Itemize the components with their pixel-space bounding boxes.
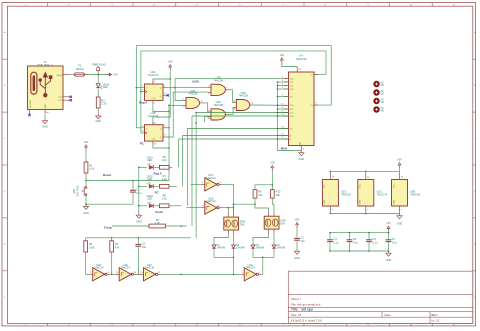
wire FF1 CLK tap xyxy=(141,91,145,93)
svg-text:USB_TWA_C: USB_TWA_C xyxy=(37,63,53,67)
wire D3 D4 join xyxy=(253,249,274,257)
wire U5A out to U5C in1 xyxy=(203,103,207,112)
svg-text:74HC153: 74HC153 xyxy=(296,57,308,61)
svg-text:LED: LED xyxy=(147,159,152,162)
inverter U1B xyxy=(205,201,217,214)
wire U2A CLR to reset net xyxy=(153,104,169,112)
svg-text:+5V: +5V xyxy=(84,140,89,144)
pin 2Y of U4 xyxy=(314,104,318,106)
svg-text:74HC14: 74HC14 xyxy=(245,266,255,270)
svg-text:GND: GND xyxy=(393,199,395,204)
wire R6 right xyxy=(169,166,172,168)
wire LED row xyxy=(139,205,147,207)
wire fuse to +5V xyxy=(85,74,112,76)
wire R7 right xyxy=(169,185,177,187)
resistor R1 xyxy=(84,162,88,173)
resistor R9 xyxy=(253,190,257,198)
pin Q of U2B xyxy=(163,127,167,129)
svg-text:VCC: VCC xyxy=(393,183,395,188)
svg-text:KiCad E.D.A. kicad 7.0.6: KiCad E.D.A. kicad 7.0.6 xyxy=(291,319,322,323)
wire bypass bottom rail xyxy=(330,250,389,252)
pin GND of U1G xyxy=(329,206,331,212)
wire U2B Qbar to U5B in2 xyxy=(167,92,207,137)
svg-text:100k: 100k xyxy=(89,246,95,250)
wire U2B CLR to reset net xyxy=(153,145,169,148)
wire R9 node to DW2 xyxy=(255,204,269,212)
svg-text:LED: LED xyxy=(147,197,152,200)
pin VCC of U2C xyxy=(365,173,367,180)
title block xyxy=(288,271,473,323)
svg-text:100mA: 100mA xyxy=(75,67,83,71)
capacitor C4 xyxy=(327,239,333,241)
wire stub to U4 pin xyxy=(278,85,289,87)
LED LED4 xyxy=(96,84,100,88)
wire DW1 top right xyxy=(233,204,235,212)
wire LED row xyxy=(139,166,147,168)
svg-text:Date:: Date: xyxy=(385,313,392,317)
svg-text:2.2k: 2.2k xyxy=(162,197,167,200)
inverter U1E xyxy=(119,268,131,281)
wire R2 to GND xyxy=(97,108,99,114)
wire stub to U4 pin xyxy=(278,135,289,137)
ground xyxy=(97,114,99,116)
svg-text:1N4148: 1N4148 xyxy=(277,247,286,250)
pin PRE of U2B xyxy=(152,121,154,124)
pin stubs DW2 xyxy=(268,212,270,216)
wire cap stub xyxy=(388,233,390,240)
svg-text:10u: 10u xyxy=(142,245,147,249)
svg-text:AGB: AGB xyxy=(192,80,200,84)
wire reset to C1 xyxy=(132,181,134,190)
svg-text:10k: 10k xyxy=(276,193,281,197)
diode D4 xyxy=(273,244,275,245)
pin stubs DW1 xyxy=(227,212,229,217)
wire R9 node to U1C/U1B outputs xyxy=(234,203,256,205)
svg-text:GND: GND xyxy=(95,120,101,123)
resistor R3 xyxy=(84,241,88,252)
wire stub to U4 pin xyxy=(278,104,289,106)
no-connect xyxy=(167,94,169,96)
svg-text:1N4148: 1N4148 xyxy=(236,247,245,250)
svg-text:Sheet: /: Sheet: / xyxy=(291,297,301,301)
flip-flop U2B xyxy=(145,125,164,141)
svg-text:R2: R2 xyxy=(101,98,105,102)
svg-text:+5V: +5V xyxy=(279,53,284,57)
svg-text:VCC: VCC xyxy=(324,183,326,188)
wire U5A in2 vertical xyxy=(169,104,182,106)
wire Q net up to U4 1C0 xyxy=(175,78,288,87)
inverter U1F xyxy=(144,268,156,281)
svg-text:0.1u: 0.1u xyxy=(333,240,339,244)
pin 2C1 of U4 xyxy=(284,108,289,110)
mounting hole H3 xyxy=(373,98,379,104)
flip-flop U2A xyxy=(145,84,164,100)
svg-text:GND: GND xyxy=(83,212,89,215)
wire U1C out xyxy=(222,184,234,212)
pin GND of U5E xyxy=(399,206,401,212)
resistor R7 xyxy=(159,184,169,188)
wire U1B out to DW1 xyxy=(227,208,229,212)
wire bypass top rail xyxy=(330,232,389,234)
+5V power symbol xyxy=(281,60,283,63)
wire DW2 to D3 xyxy=(253,234,269,244)
wire rail to R9 xyxy=(255,185,272,190)
wire bus v 187.3 xyxy=(187,128,288,130)
svg-text:GND: GND xyxy=(386,259,392,262)
svg-text:CC1: CC1 xyxy=(58,97,63,99)
wire inv1 to inv2 xyxy=(110,273,119,275)
svg-text:1.0k: 1.0k xyxy=(89,167,95,171)
wire D1 D2 join xyxy=(214,249,234,257)
svg-text:GND: GND xyxy=(294,257,300,260)
wire +5V to resistor rail xyxy=(271,171,273,190)
wire R3 bottom to inverter input xyxy=(86,252,90,274)
svg-text:Reg A: Reg A xyxy=(139,101,148,105)
pin Qbar of U2A xyxy=(163,94,167,96)
LED LED3 xyxy=(149,204,153,208)
wire U1B in xyxy=(186,207,201,209)
power unit U1G xyxy=(322,180,338,207)
pin A of U4 xyxy=(284,135,289,137)
ground xyxy=(300,151,302,153)
svg-text:2G: 2G xyxy=(290,128,293,130)
wire bus v 196.1 xyxy=(196,112,288,114)
pin CC1 of J1 xyxy=(63,96,70,98)
wire C1 to GND rail xyxy=(86,193,133,204)
svg-text:Reg A: Reg A xyxy=(153,172,162,176)
capacitor C7 xyxy=(386,239,392,241)
multiplexer U4 xyxy=(289,72,315,146)
capacitor C1 xyxy=(130,189,136,191)
pin 1C0 of U4 xyxy=(284,77,289,79)
svg-text:+5V: +5V xyxy=(386,221,391,225)
svg-text:Clock: Clock xyxy=(104,226,113,230)
wire clock net vertical xyxy=(195,123,197,238)
svg-text:GND: GND xyxy=(397,223,403,226)
wire RC top rail xyxy=(86,237,191,239)
svg-text:GND: GND xyxy=(45,104,47,109)
wire DW2 to D4 xyxy=(273,234,275,244)
svg-text:VBUS: VBUS xyxy=(56,75,62,77)
wire inv2 to inv3 xyxy=(136,273,143,275)
+5V power symbol xyxy=(169,67,171,70)
pin 2C2 of U4 xyxy=(284,112,289,114)
svg-text:U4: U4 xyxy=(299,53,303,57)
mounting hole H1 xyxy=(373,81,379,87)
svg-text:74HC14: 74HC14 xyxy=(206,199,216,203)
wire stub to U4 pin xyxy=(278,108,289,110)
AND gate U5B xyxy=(211,84,225,95)
wire DW1 to D1 xyxy=(214,234,228,244)
svg-text:74HC08: 74HC08 xyxy=(213,78,223,82)
pin CLR of U2A xyxy=(152,100,154,104)
svg-text:R4: R4 xyxy=(115,242,119,246)
svg-text:GND: GND xyxy=(136,221,142,224)
svg-text:10u: 10u xyxy=(300,239,305,243)
svg-text:Title:: Title: xyxy=(291,308,299,312)
wire stub to U4 pin xyxy=(278,138,289,140)
wire R8 right xyxy=(169,205,181,207)
pin 1C3 of U4 xyxy=(284,88,289,90)
svg-text:MUX: MUX xyxy=(281,147,287,151)
AND gate U5C xyxy=(211,109,225,120)
wire R10 bottom xyxy=(272,198,274,212)
resistor R2 xyxy=(96,97,100,108)
wire to LED4 xyxy=(97,75,99,84)
svg-text:R3: R3 xyxy=(89,242,93,246)
svg-text:+5V: +5V xyxy=(295,217,300,221)
svg-text:File: led-cpu-bread.sch: File: led-cpu-bread.sch xyxy=(291,302,321,306)
inverter U1C xyxy=(205,178,217,191)
svg-text:R9: R9 xyxy=(258,190,262,194)
pin 1C1 of U4 xyxy=(284,81,289,83)
svg-text:Clock: Clock xyxy=(155,210,163,214)
diode D2 xyxy=(233,244,235,245)
svg-text:1G: 1G xyxy=(290,96,293,98)
pin Q of U2A xyxy=(163,87,167,89)
svg-text:74LVC74: 74LVC74 xyxy=(148,73,159,77)
svg-text:GND: GND xyxy=(324,199,326,204)
svg-text:74HC08: 74HC08 xyxy=(238,94,248,98)
switch SW1 xyxy=(85,187,87,189)
mounting hole H4 xyxy=(373,106,379,112)
capacitor C6 xyxy=(366,239,372,241)
svg-text:+5V: +5V xyxy=(113,73,118,77)
wire U1C in xyxy=(191,183,202,185)
wire J1 GND xyxy=(44,113,46,119)
svg-text:+5V: +5V xyxy=(397,158,402,162)
pin 1G of U4 xyxy=(284,96,289,98)
LED LED1 xyxy=(149,165,153,169)
wire U5C in2 from below xyxy=(205,117,208,123)
svg-text:1.5k: 1.5k xyxy=(155,222,160,225)
pin CC2 of J1 xyxy=(63,99,70,101)
wire R1 to reset node xyxy=(85,173,87,187)
wire stub xyxy=(329,171,331,173)
mounting hole H2 xyxy=(373,89,379,95)
wire LED4 to R2 xyxy=(97,89,99,97)
pin 1C2 of U4 xyxy=(284,85,289,87)
+5V power symbol xyxy=(271,168,273,171)
LED LED2 xyxy=(149,184,153,188)
svg-text:led cpu: led cpu xyxy=(302,308,313,312)
wire bus v 182.5 xyxy=(183,135,289,137)
wire U2B Q to U5A in2 xyxy=(167,127,169,129)
+5V power symbol xyxy=(296,225,298,228)
svg-text:74HC14: 74HC14 xyxy=(206,176,216,180)
svg-text:GND: GND xyxy=(360,199,362,204)
ground xyxy=(138,213,140,215)
wire feedback outer loop xyxy=(136,46,331,128)
+5V power symbol xyxy=(399,165,401,168)
wire power unit GND rail xyxy=(330,213,399,215)
wire cap stub xyxy=(368,233,370,240)
pin VCC of U5E xyxy=(399,173,401,180)
ground xyxy=(85,204,87,206)
resistor R8 xyxy=(159,204,169,208)
wire stub to U4 pin xyxy=(278,96,289,98)
no-connect xyxy=(70,96,72,98)
pin GND of U4 xyxy=(300,146,302,151)
pin GND of J1 xyxy=(44,110,46,114)
+5V power symbol xyxy=(85,147,87,150)
diode D1 xyxy=(213,244,215,245)
AND gate U5D xyxy=(236,100,249,111)
svg-text:12k: 12k xyxy=(258,193,263,197)
svg-text:LED: LED xyxy=(147,178,152,181)
inverter U1D xyxy=(93,268,105,281)
svg-text:CC2: CC2 xyxy=(58,100,63,102)
wire SW1 to GND xyxy=(85,196,87,205)
ground xyxy=(44,119,46,121)
wire stub to U4 pin xyxy=(278,115,289,117)
svg-text:SHIELD: SHIELD xyxy=(30,100,32,108)
svg-text:Id: 1/1: Id: 1/1 xyxy=(432,319,440,323)
wire U1B out xyxy=(222,207,234,209)
ground xyxy=(399,214,401,216)
pin CLR of U2B xyxy=(152,141,154,145)
ground xyxy=(388,251,390,253)
svg-text:0.1u: 0.1u xyxy=(136,191,142,195)
wire DW1 to D2 xyxy=(233,234,235,244)
wire U1A out xyxy=(261,257,262,274)
pin 1Y of U4 xyxy=(314,73,318,75)
wire stub xyxy=(399,171,401,173)
svg-text:74HC08: 74HC08 xyxy=(410,193,420,197)
wire feedback inner loop xyxy=(141,51,326,133)
no-connect xyxy=(70,99,72,101)
pin VCC of U4 xyxy=(296,67,298,73)
transistor pair DW2 xyxy=(264,216,279,229)
svg-text:2.2k: 2.2k xyxy=(101,102,107,106)
wire LED row xyxy=(139,185,147,187)
wire bus v 178.6 xyxy=(179,138,289,140)
svg-text:Rev:: Rev: xyxy=(432,313,438,317)
svg-text:74HC14: 74HC14 xyxy=(94,266,104,270)
svg-text:47k: 47k xyxy=(115,246,120,250)
wire VBUS to fuse xyxy=(70,74,74,76)
diode D3 xyxy=(252,244,254,245)
svg-text:2.2k: 2.2k xyxy=(162,159,167,162)
svg-text:2.2k: 2.2k xyxy=(162,178,167,181)
resistor R6 xyxy=(159,165,169,169)
wire reset horizontal xyxy=(86,180,169,182)
+5V power symbol xyxy=(388,229,390,232)
pin GND of U2C xyxy=(365,206,367,212)
svg-text:SW_Push: SW_Push xyxy=(77,185,80,196)
wire cap stub xyxy=(329,233,331,240)
svg-text:VCC: VCC xyxy=(360,183,362,188)
svg-text:74HC14: 74HC14 xyxy=(341,193,351,197)
power unit U5E xyxy=(392,180,408,207)
capacitor C2 xyxy=(135,243,141,245)
svg-text:0.1u: 0.1u xyxy=(353,240,359,244)
svg-text:GND: GND xyxy=(299,141,301,146)
USB-C receptacle glyph xyxy=(31,72,37,94)
USB connector J1 xyxy=(28,66,64,110)
wire R9 bottom xyxy=(254,198,256,204)
svg-text:GND: GND xyxy=(42,126,48,129)
svg-text:+5V: +5V xyxy=(270,160,275,164)
power unit U2C xyxy=(358,180,374,207)
wire Q net down to U5A in1 xyxy=(175,88,182,101)
wire C2 top xyxy=(137,238,139,244)
PWR_FLAG xyxy=(97,71,99,75)
fuse F1 xyxy=(75,73,85,76)
svg-text:0.1u: 0.1u xyxy=(372,240,378,244)
wire inv3 to U1A xyxy=(161,273,241,275)
svg-text:1N4148: 1N4148 xyxy=(217,247,226,250)
wire FF1 D tap xyxy=(136,87,144,89)
wire U5C out to U5D in2 xyxy=(229,107,233,114)
svg-text:74LVC74: 74LVC74 xyxy=(377,193,388,197)
pin 2C3 of U4 xyxy=(284,115,289,117)
wire bus v 192 xyxy=(192,115,289,117)
ground xyxy=(296,249,298,251)
pin SHIELD of J1 xyxy=(29,110,31,115)
pin PRE of U2A xyxy=(152,81,154,84)
wire R4 bottom xyxy=(111,252,113,274)
USB trident glyph xyxy=(39,73,52,97)
wire U2A Q to U5B input xyxy=(167,86,207,88)
wire +5V to R1 xyxy=(85,150,87,162)
no-connect xyxy=(28,114,30,116)
wire R5 to clock vertical xyxy=(166,225,187,227)
wire stub xyxy=(365,171,367,173)
wire +5V to C3 xyxy=(296,228,298,238)
svg-text:R1: R1 xyxy=(89,163,93,167)
wire U5B out to U5D in1 xyxy=(229,90,233,103)
svg-text:0.1u: 0.1u xyxy=(392,240,398,244)
wire stub to U4 pin xyxy=(278,88,289,90)
pin B of U4 xyxy=(284,138,289,140)
svg-text:GND: GND xyxy=(299,158,305,161)
svg-text:DW: DW xyxy=(280,223,285,226)
wire LED column xyxy=(138,167,140,213)
wire stub to U4 pin xyxy=(278,112,289,114)
wire cap stub xyxy=(349,233,351,240)
svg-text:74HC08: 74HC08 xyxy=(213,103,223,107)
pin 2C0 of U4 xyxy=(284,104,289,106)
wire strobe bus xyxy=(278,81,289,83)
svg-text:Reset: Reset xyxy=(103,173,111,177)
pin Qbar of U2B xyxy=(163,136,167,138)
resistor R10 xyxy=(270,190,274,198)
svg-text:LED: LED xyxy=(103,86,108,89)
inverter U1A xyxy=(244,268,256,281)
svg-text:PWR_FLAG: PWR_FLAG xyxy=(92,64,106,67)
resistor R4 xyxy=(110,241,114,252)
svg-text:R10: R10 xyxy=(276,190,281,194)
svg-text:Size: A4: Size: A4 xyxy=(291,313,302,317)
pin VCC of U1G xyxy=(329,173,331,180)
svg-text:74HC14: 74HC14 xyxy=(145,266,155,270)
pin VBUS of J1 xyxy=(63,74,70,76)
svg-text:DW: DW xyxy=(240,224,245,227)
wire U5D out to U4 2C0 xyxy=(253,104,288,106)
wire R3 top xyxy=(85,238,87,241)
wire clock row xyxy=(112,225,149,227)
wire R4 top xyxy=(111,238,113,241)
capacitor C5 xyxy=(347,239,353,241)
svg-text:74HC14: 74HC14 xyxy=(120,266,130,270)
+5V power symbol xyxy=(108,74,111,76)
wire +5V to U4 VCC xyxy=(282,63,297,66)
capacitor C3 xyxy=(294,237,300,239)
wire +5V to PRE pins xyxy=(153,70,170,80)
resistor R5 xyxy=(149,224,166,228)
svg-text:+5V: +5V xyxy=(168,60,173,64)
